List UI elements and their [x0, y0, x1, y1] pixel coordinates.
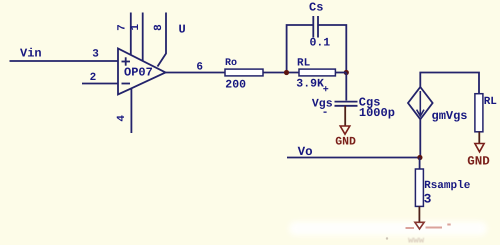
wire Vo horizontal [287, 157, 420, 159]
svg-text:Cs: Cs [309, 1, 323, 15]
dependent source arrow [417, 91, 424, 116]
pin 8 number (rotated) [153, 24, 165, 31]
junction node Vo [417, 155, 422, 160]
pin 4 number (rotated) [116, 115, 128, 122]
svg-text:OP07: OP07 [124, 66, 153, 80]
resistor Ro body [225, 69, 263, 76]
wire top of gmVgs branch [420, 73, 479, 94]
svg-text:Vin: Vin [20, 47, 42, 61]
watermark faded www text [408, 236, 425, 245]
svg-text:6: 6 [196, 61, 203, 73]
svg-text:U: U [179, 23, 186, 37]
svg-text:4: 4 [116, 115, 128, 122]
wire Cgs to ground [344, 106, 346, 126]
wire pin 8 [158, 13, 167, 67]
wire Rsample to ground [418, 206, 420, 221]
junction node left of RL [284, 70, 289, 75]
resistor RL right body [475, 94, 483, 132]
wire pin 6 output to Ro [166, 72, 226, 74]
op-amp label OP07 [124, 66, 153, 80]
watermark red dashes [406, 225, 451, 229]
capacitor Cs plates [313, 16, 318, 38]
wire RL right to ground [478, 132, 480, 143]
ground symbol below Rsample [415, 222, 424, 229]
pin 6 number [196, 61, 203, 73]
resistor Rsample label [424, 180, 471, 192]
svg-text:1: 1 [130, 24, 142, 31]
node Vgs plus mark [323, 85, 329, 96]
svg-text:Rsample: Rsample [424, 180, 471, 192]
svg-text:GND: GND [335, 136, 356, 149]
node U label [179, 23, 186, 37]
dependent source label gmVgs [432, 109, 468, 123]
resistor Rsample body [415, 169, 423, 206]
capacitor Cs left branch wire [287, 25, 313, 73]
ground GND text below Cgs [335, 136, 356, 149]
wire pin 7 [130, 13, 132, 56]
svg-text:-: - [322, 107, 329, 119]
svg-text:www: www [408, 236, 425, 245]
svg-text:200: 200 [225, 78, 246, 91]
svg-text:3: 3 [424, 192, 432, 207]
resistor Ro value 200 [225, 78, 246, 91]
pin 1 number (rotated) [130, 24, 142, 31]
svg-text:gmVgs: gmVgs [432, 109, 468, 123]
node Vgs label [312, 98, 333, 111]
svg-text:Ro: Ro [225, 58, 237, 69]
svg-text:2: 2 [90, 72, 97, 84]
svg-text:7: 7 [116, 24, 128, 31]
node Vgs minus mark [322, 107, 329, 119]
node Vin label [20, 47, 42, 61]
ground symbol below right RL [475, 144, 484, 152]
capacitor Cgs plates [335, 102, 358, 106]
svg-text:3: 3 [92, 49, 99, 61]
capacitor Cgs value 1000p [359, 106, 395, 120]
wire Ro to RL [263, 72, 299, 74]
svg-text:GND: GND [467, 155, 490, 169]
resistor RL right label [484, 96, 498, 108]
svg-text:3.9K: 3.9K [296, 77, 324, 90]
watermark white band [289, 222, 487, 236]
svg-text:+: + [323, 85, 329, 96]
svg-text:RL: RL [297, 58, 311, 70]
ground GND text below right RL [467, 155, 490, 169]
resistor RL value 3.9K [296, 77, 324, 90]
wire Vin to pin 3 [10, 60, 119, 62]
dependent source gmVgs diamond [408, 87, 433, 119]
pin 7 number (rotated) [116, 24, 128, 31]
resistor Rsample value 3 [424, 192, 432, 207]
ground symbol below Cgs [340, 126, 350, 134]
svg-text:Vo: Vo [298, 145, 313, 159]
capacitor Cs label [309, 1, 323, 15]
svg-text:8: 8 [153, 24, 165, 31]
wire diamond to Vo junction [419, 119, 421, 157]
wire pin 4 [130, 88, 132, 133]
watermark faint dot [386, 237, 388, 239]
wire pin 1 [142, 13, 144, 62]
capacitor Cs value 0.1 [310, 37, 331, 50]
capacitor Cgs label [359, 96, 381, 110]
op-amp minus input mark [122, 83, 131, 85]
wire pin 2 [82, 83, 118, 85]
svg-text:0.1: 0.1 [310, 37, 331, 50]
op-amp U1 OP07 triangle [118, 49, 166, 95]
resistor Ro label [225, 58, 237, 69]
op-amp plus input mark [122, 57, 131, 65]
resistor RL body [299, 69, 335, 76]
resistor RL label [297, 58, 311, 70]
wire junction to Cgs [345, 73, 347, 101]
wire Vo junction to Rsample [419, 158, 421, 170]
pin 3 number [92, 49, 99, 61]
capacitor Cs right branch wire [318, 25, 346, 73]
svg-text:1000p: 1000p [359, 106, 395, 120]
pin 2 number [90, 72, 97, 84]
wire RL to right junction [335, 72, 346, 74]
svg-text:RL: RL [484, 96, 498, 108]
node Vo label [298, 145, 313, 159]
junction node right of RL [344, 70, 349, 75]
